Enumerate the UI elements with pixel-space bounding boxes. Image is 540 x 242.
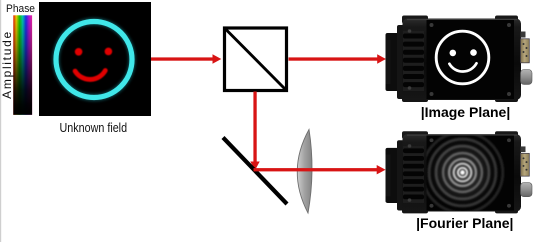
beamsplitter cube (225, 28, 287, 91)
smiley left eye (75, 48, 83, 56)
beam arrow: beamsplitter to image camera (289, 54, 387, 63)
svg-text:Unknown field: Unknown field (60, 120, 128, 135)
svg-text:|Image Plane|: |Image Plane| (421, 104, 511, 120)
smiley face ring glow (56, 22, 132, 98)
image plane smiley ring (436, 31, 489, 84)
image plane smiley mouth (449, 63, 476, 71)
unknown field square (39, 2, 151, 116)
mirror (223, 138, 287, 205)
svg-text:Phase: Phase (6, 3, 35, 15)
image plane smiley left eye (450, 50, 457, 57)
svg-text:|Fourier Plane|: |Fourier Plane| (416, 215, 513, 231)
colorbar amplitude fade (13, 15, 32, 115)
svg-text:Amplitude: Amplitude (0, 30, 14, 99)
lens (297, 130, 312, 214)
colorbar hue gradient (13, 15, 32, 115)
beamsplitter diagonal (226, 29, 286, 90)
beam arrow: beamsplitter down to mirror (250, 92, 259, 171)
smiley right eye (105, 48, 113, 56)
fourier diffraction rings (421, 131, 505, 215)
beam arrow: field to beamsplitter (151, 54, 221, 63)
beam arrow: mirror through lens to fourier camera (254, 165, 386, 174)
camera body (image plane) (386, 16, 533, 103)
smiley mouth (75, 71, 105, 80)
page left edge line (0, 0, 1, 242)
image plane smiley right eye (470, 49, 477, 56)
camera body (fourier plane) (386, 131, 533, 213)
smiley face ring (56, 22, 132, 98)
